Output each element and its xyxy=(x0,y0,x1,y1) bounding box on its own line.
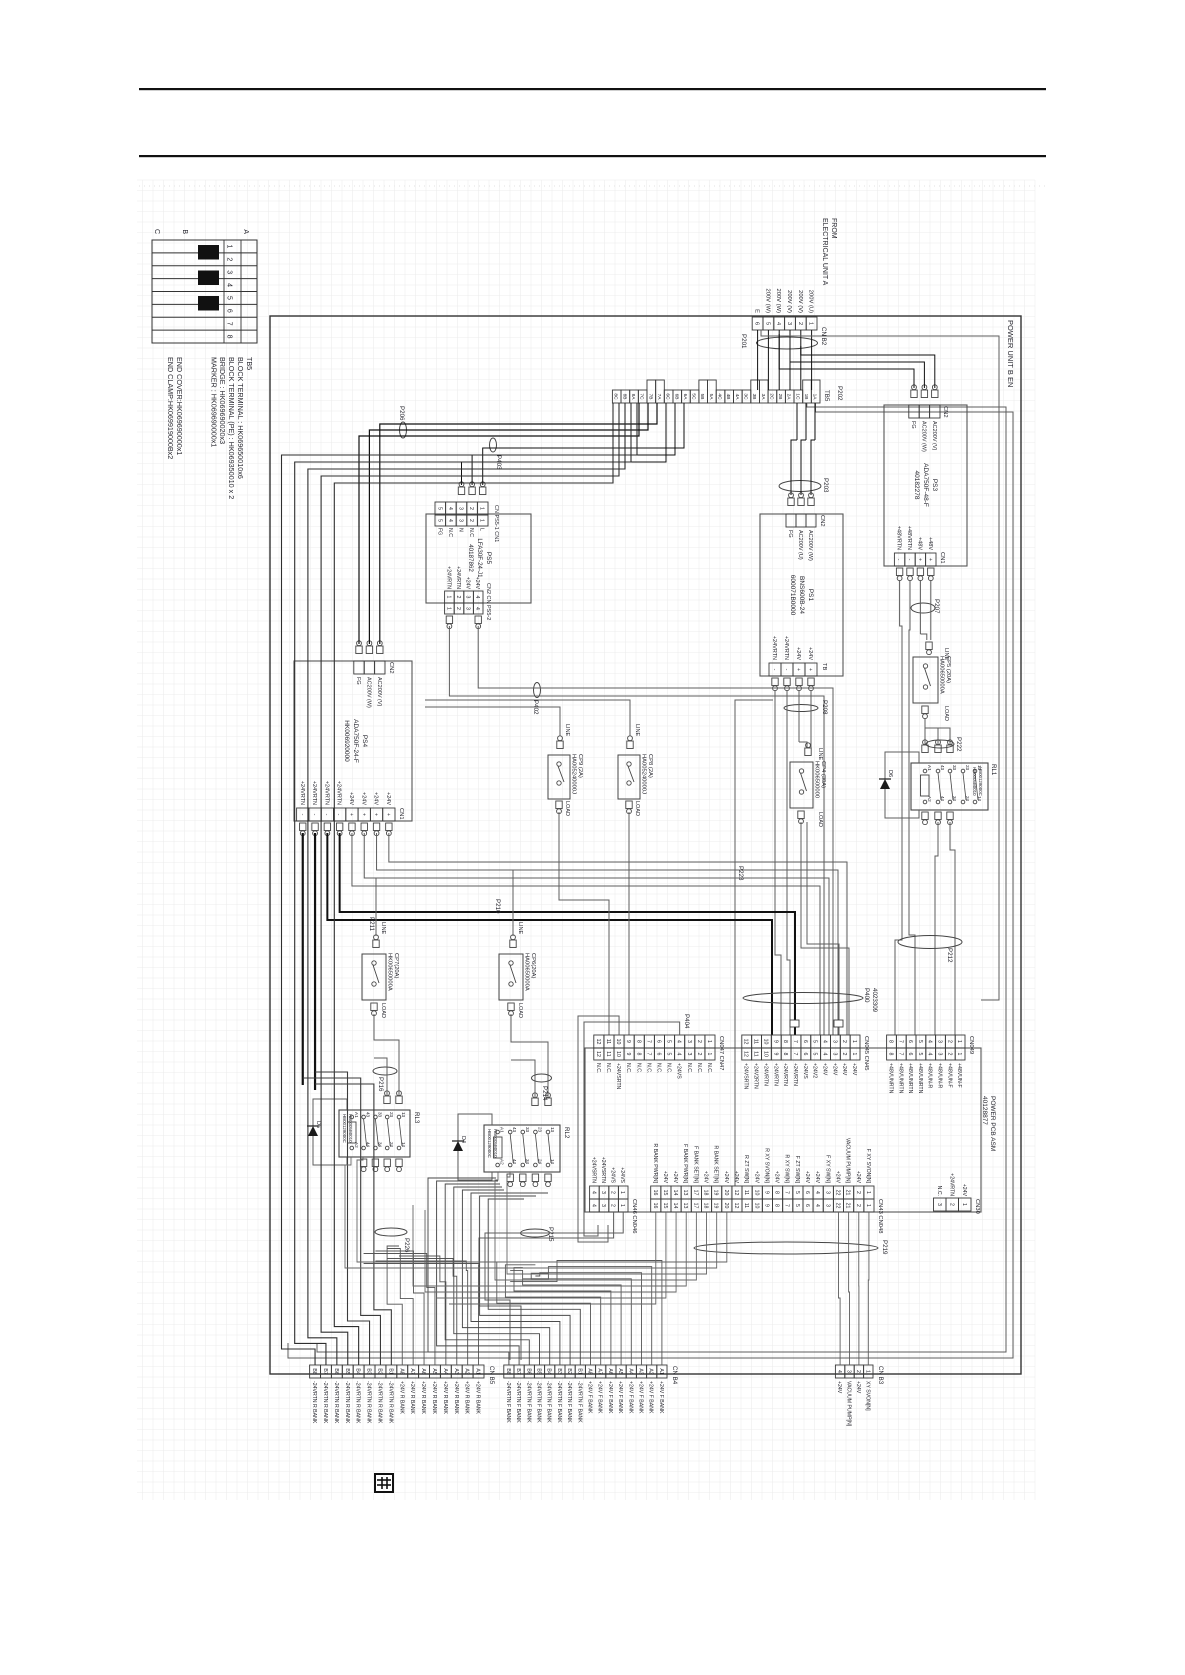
svg-text:16: 16 xyxy=(652,1203,658,1209)
svg-text:3: 3 xyxy=(936,1203,942,1206)
svg-text:FG: FG xyxy=(436,528,442,535)
svg-text:N.C.: N.C. xyxy=(706,1063,712,1073)
svg-text:-24VRTN F BANK: -24VRTN F BANK xyxy=(566,1381,572,1423)
svg-text:3: 3 xyxy=(465,607,471,610)
svg-text:CN46 CN046: CN46 CN046 xyxy=(631,1199,637,1233)
svg-text:10: 10 xyxy=(615,1039,621,1045)
svg-text:B1: B1 xyxy=(387,1368,393,1374)
svg-text:A1: A1 xyxy=(500,1127,505,1133)
svg-text:RL3: RL3 xyxy=(413,1112,420,1124)
svg-text:8: 8 xyxy=(782,1053,788,1056)
svg-text:12: 12 xyxy=(743,1039,749,1045)
svg-text:4C: 4C xyxy=(717,393,723,400)
svg-text:1: 1 xyxy=(865,1191,871,1194)
svg-text:LINE: LINE xyxy=(380,922,386,935)
svg-text:9: 9 xyxy=(625,1053,631,1056)
svg-text:1: 1 xyxy=(445,607,451,610)
svg-text:2: 2 xyxy=(946,1053,952,1056)
svg-text:N.C.: N.C. xyxy=(625,1063,631,1073)
svg-text:LOAD: LOAD xyxy=(517,1003,523,1018)
jumper blocks xyxy=(198,245,219,260)
svg-text:7A: 7A xyxy=(656,394,662,401)
svg-text:6B: 6B xyxy=(673,394,679,400)
svg-text:CN B5: CN B5 xyxy=(488,1366,495,1385)
svg-text:F BANK PWR[N]: F BANK PWR[N] xyxy=(682,1144,688,1183)
svg-text:P206: P206 xyxy=(398,406,405,421)
svg-text:B4: B4 xyxy=(355,1368,361,1374)
svg-text:P201: P201 xyxy=(740,334,747,349)
svg-text:10: 10 xyxy=(753,1190,759,1196)
svg-text:12: 12 xyxy=(733,1190,739,1196)
svg-text:+24VRTN: +24VRTN xyxy=(772,1063,778,1086)
svg-text:+24V: +24V xyxy=(807,647,813,660)
svg-text:+48VRTN: +48VRTN xyxy=(896,526,902,550)
svg-text:A4: A4 xyxy=(627,1368,633,1374)
svg-text:N.C.: N.C. xyxy=(635,1063,641,1073)
svg-text:P212: P212 xyxy=(946,948,953,963)
svg-text:4: 4 xyxy=(775,322,781,325)
svg-text:7: 7 xyxy=(792,1053,798,1056)
svg-text:8: 8 xyxy=(782,1040,788,1043)
svg-text:-24VRTN R BANK: -24VRTN R BANK xyxy=(376,1381,382,1424)
svg-text:9: 9 xyxy=(625,1040,631,1043)
svg-text:ADA750F-48-F: ADA750F-48-F xyxy=(922,463,929,507)
svg-text:1: 1 xyxy=(956,1053,962,1056)
svg-text:CP8 (2A): CP8 (2A) xyxy=(647,754,653,778)
svg-text:2C: 2C xyxy=(768,393,774,400)
svg-text:END COVER:HK069690000x1: END COVER:HK069690000x1 xyxy=(175,357,184,455)
svg-text:A6: A6 xyxy=(607,1368,613,1374)
svg-text:+24VRTN: +24VRTN xyxy=(445,566,451,589)
svg-text:5: 5 xyxy=(917,1040,923,1043)
wire TB5 to PS4 CN2 xyxy=(380,403,657,644)
breaker CP7 xyxy=(373,940,379,948)
svg-text:N.C.: N.C. xyxy=(686,1063,692,1073)
cable marker P208 xyxy=(784,705,818,712)
svg-text:12: 12 xyxy=(743,1051,749,1057)
svg-text:-24VRTN R BANK: -24VRTN R BANK xyxy=(355,1381,361,1424)
svg-text:8: 8 xyxy=(888,1040,894,1043)
svg-text:+24V: +24V xyxy=(465,577,471,590)
svg-text:+24V: +24V xyxy=(662,1171,668,1184)
svg-text:+24V F BANK: +24V F BANK xyxy=(627,1381,633,1414)
wire CP4 LOAD to CN045 xyxy=(801,822,849,1035)
svg-text:A7: A7 xyxy=(409,1368,415,1374)
svg-text:+24V F BANK: +24V F BANK xyxy=(648,1381,654,1414)
svg-text:+: + xyxy=(348,813,354,816)
svg-text:4: 4 xyxy=(676,1053,682,1056)
svg-text:RL2: RL2 xyxy=(563,1127,570,1139)
svg-text:19: 19 xyxy=(713,1203,719,1209)
svg-text:19: 19 xyxy=(713,1190,719,1196)
svg-text:CN2: CN2 xyxy=(819,515,825,527)
svg-text:4: 4 xyxy=(447,519,453,522)
svg-text:+24VRTN: +24VRTN xyxy=(792,1063,798,1086)
svg-text:1: 1 xyxy=(865,1204,871,1207)
svg-text:-24VRTN R BANK: -24VRTN R BANK xyxy=(311,1381,317,1424)
cable marker P219 xyxy=(694,1242,878,1254)
svg-text:CN2 CN PS5-2: CN2 CN PS5-2 xyxy=(485,583,491,620)
svg-text:5: 5 xyxy=(794,1191,800,1194)
svg-text:F XY SVON[N]: F XY SVON[N] xyxy=(865,1149,871,1184)
svg-text:4023309: 4023309 xyxy=(871,988,878,1013)
svg-text:R ZT SW[N]: R ZT SW[N] xyxy=(743,1155,749,1183)
svg-text:10: 10 xyxy=(762,1039,768,1045)
svg-text:40182278: 40182278 xyxy=(913,471,920,500)
svg-text:8: 8 xyxy=(226,335,233,339)
svg-text:HA005240000J: HA005240000J xyxy=(571,754,577,794)
svg-text:+24V F BANK: +24V F BANK xyxy=(617,1381,623,1414)
svg-text:3: 3 xyxy=(600,1204,606,1207)
svg-text:4: 4 xyxy=(814,1191,820,1194)
svg-text:13: 13 xyxy=(977,765,982,771)
svg-text:6: 6 xyxy=(802,1040,808,1043)
svg-text:2B: 2B xyxy=(777,394,783,400)
svg-text:A3: A3 xyxy=(638,1368,644,1374)
svg-text:5B: 5B xyxy=(699,394,705,400)
svg-text:A8: A8 xyxy=(587,1368,593,1374)
cable marker P212 xyxy=(898,936,962,949)
svg-text:+24V: +24V xyxy=(774,1171,780,1184)
svg-text:CN30: CN30 xyxy=(974,1199,980,1214)
svg-text:A7: A7 xyxy=(597,1368,603,1374)
svg-text:4: 4 xyxy=(590,1204,596,1207)
svg-text:4: 4 xyxy=(822,1053,828,1056)
svg-text:3: 3 xyxy=(824,1191,830,1194)
svg-text:9: 9 xyxy=(763,1191,769,1194)
svg-text:20: 20 xyxy=(723,1190,729,1196)
svg-text:2: 2 xyxy=(610,1204,616,1207)
svg-text:200V (V): 200V (V) xyxy=(786,290,792,313)
svg-text:+24V: +24V xyxy=(831,1063,837,1076)
svg-text:200V (U): 200V (U) xyxy=(808,290,814,313)
cable marker P203 xyxy=(779,481,821,492)
svg-text:5A: 5A xyxy=(708,394,714,401)
wire PS3 CN1 to CP5 xyxy=(930,580,932,640)
svg-text:BNS600B-24: BNS600B-24 xyxy=(798,576,805,614)
svg-text:1: 1 xyxy=(619,1191,625,1194)
svg-text:-: - xyxy=(299,814,305,816)
header rule 1 xyxy=(139,88,1046,90)
cable marker P201 xyxy=(757,337,818,349)
svg-text:+48VUN-R: +48VUN-R xyxy=(937,1063,943,1088)
svg-text:2: 2 xyxy=(841,1040,847,1043)
svg-text:3: 3 xyxy=(846,1370,852,1373)
svg-text:18: 18 xyxy=(703,1203,709,1209)
svg-text:FG: FG xyxy=(910,421,916,429)
svg-text:D5: D5 xyxy=(315,1121,321,1128)
svg-text:4A: 4A xyxy=(734,394,740,401)
svg-text:34: 34 xyxy=(525,1159,530,1165)
svg-text:1: 1 xyxy=(956,1040,962,1043)
cable marker P216 xyxy=(373,1067,397,1075)
svg-text:D4: D4 xyxy=(460,1136,466,1143)
svg-text:F BANK SET[N]: F BANK SET[N] xyxy=(692,1146,698,1183)
svg-text:LOAD: LOAD xyxy=(817,812,823,827)
svg-text:+24V F BANK: +24V F BANK xyxy=(597,1381,603,1414)
svg-text:PS1: PS1 xyxy=(807,589,814,602)
svg-text:+24V R BANK: +24V R BANK xyxy=(409,1381,415,1415)
svg-text:7C: 7C xyxy=(639,393,645,400)
svg-text:+48VUN-R: +48VUN-R xyxy=(927,1063,933,1088)
svg-text:P207: P207 xyxy=(933,599,940,614)
wire CP8 CP9 load to CN047 xyxy=(628,812,630,1035)
svg-text:-: - xyxy=(323,814,329,816)
svg-text:+24VRTN: +24VRTN xyxy=(323,781,329,805)
svg-text:2: 2 xyxy=(226,257,233,261)
svg-text:43: 43 xyxy=(512,1127,517,1133)
svg-text:CN2: CN2 xyxy=(942,406,948,418)
svg-text:14: 14 xyxy=(401,1142,406,1148)
svg-text:+: + xyxy=(807,668,813,671)
svg-text:ELECTRICAL UNIT A: ELECTRICAL UNIT A xyxy=(821,218,828,286)
svg-text:12: 12 xyxy=(595,1039,601,1045)
svg-text:MARKER : HK069690000x1: MARKER : HK069690000x1 xyxy=(210,357,219,447)
svg-text:6A: 6A xyxy=(682,394,688,401)
svg-text:8: 8 xyxy=(635,1040,641,1043)
svg-text:4: 4 xyxy=(474,596,480,599)
svg-text:+24V: +24V xyxy=(360,792,366,805)
svg-text:1: 1 xyxy=(851,1053,857,1056)
svg-text:1: 1 xyxy=(619,1204,625,1207)
svg-text:2: 2 xyxy=(455,596,461,599)
svg-text:6: 6 xyxy=(226,309,233,313)
svg-text:B5: B5 xyxy=(536,1368,542,1374)
svg-text:A5: A5 xyxy=(617,1368,623,1374)
svg-text:A6: A6 xyxy=(420,1368,426,1374)
svg-text:23: 23 xyxy=(389,1112,394,1118)
svg-text:END CLAMP:HK069919000Bx2: END CLAMP:HK069919000Bx2 xyxy=(166,357,175,459)
svg-text:2: 2 xyxy=(610,1191,616,1194)
svg-text:3: 3 xyxy=(786,322,792,325)
svg-text:+48VUN-F: +48VUN-F xyxy=(956,1063,962,1088)
svg-text:4: 4 xyxy=(836,1370,842,1373)
svg-text:6: 6 xyxy=(804,1191,810,1194)
svg-text:14: 14 xyxy=(550,1159,555,1165)
svg-text:5: 5 xyxy=(764,322,770,325)
svg-text:2: 2 xyxy=(696,1053,702,1056)
svg-text:1: 1 xyxy=(479,507,485,510)
svg-text:11: 11 xyxy=(743,1203,749,1208)
svg-text:33: 33 xyxy=(952,765,957,771)
svg-text:HB00128000C: HB00128000C xyxy=(342,1114,347,1143)
svg-text:44: 44 xyxy=(512,1159,517,1165)
svg-text:2: 2 xyxy=(455,607,461,610)
svg-text:A1: A1 xyxy=(927,765,932,771)
svg-text:FROM: FROM xyxy=(830,218,837,239)
svg-text:3C: 3C xyxy=(742,393,748,400)
svg-text:1: 1 xyxy=(226,244,233,248)
svg-text:POWER UNIT B EN: POWER UNIT B EN xyxy=(1006,320,1015,387)
svg-text:6: 6 xyxy=(802,1053,808,1056)
wire PS1 RTN to CN045 xyxy=(787,690,790,1035)
svg-text:B3: B3 xyxy=(556,1368,562,1374)
svg-text:HK006500000: HK006500000 xyxy=(814,761,820,798)
svg-text:P219: P219 xyxy=(881,1240,888,1255)
breaker CP6 xyxy=(510,940,516,948)
svg-text:-24VRTN F BANK: -24VRTN F BANK xyxy=(525,1381,531,1423)
svg-text:AC200V (V): AC200V (V) xyxy=(376,677,382,707)
svg-text:+24V: +24V xyxy=(834,1171,840,1184)
svg-text:7: 7 xyxy=(645,1053,651,1056)
svg-text:B1: B1 xyxy=(576,1368,582,1374)
svg-text:R XY SVON[N]: R XY SVON[N] xyxy=(763,1148,769,1183)
svg-text:+24V R BANK: +24V R BANK xyxy=(453,1381,459,1415)
svg-text:-: - xyxy=(896,559,902,561)
svg-text:+24V: +24V xyxy=(672,1171,678,1184)
svg-text:LINE: LINE xyxy=(517,922,523,935)
svg-text:+24V: +24V xyxy=(373,792,379,805)
svg-text:A3: A3 xyxy=(453,1368,459,1374)
svg-text:BLOCK TERMINAL (PE) : HK069350: BLOCK TERMINAL (PE) : HK069350010 x 2 xyxy=(227,357,236,499)
svg-text:+: + xyxy=(373,813,379,816)
svg-text:+24V: +24V xyxy=(822,1063,828,1076)
svg-text:A: A xyxy=(242,229,249,234)
wire TB5 to PS3 CN2 xyxy=(801,346,935,388)
svg-text:40128877: 40128877 xyxy=(981,1096,988,1125)
wire PS4 +24V risers xyxy=(389,833,847,1035)
svg-text:AC200V (W): AC200V (W) xyxy=(807,530,813,561)
power supply PS3 xyxy=(884,405,967,566)
svg-text:1C: 1C xyxy=(794,393,800,400)
svg-text:5: 5 xyxy=(436,519,442,522)
svg-text:CN43 CN048: CN43 CN048 xyxy=(877,1199,883,1233)
svg-text:3: 3 xyxy=(686,1053,692,1056)
svg-text:9: 9 xyxy=(772,1053,778,1056)
svg-text:+24V F BANK: +24V F BANK xyxy=(587,1381,593,1414)
svg-text:AC200V (V): AC200V (V) xyxy=(931,421,937,451)
cable marker P400 xyxy=(743,993,863,1004)
cable marker P402 xyxy=(534,683,541,698)
svg-text:P210: P210 xyxy=(494,899,501,914)
svg-text:A2: A2 xyxy=(648,1368,654,1374)
svg-text:12: 12 xyxy=(733,1203,739,1209)
svg-text:+24V F BANK: +24V F BANK xyxy=(658,1381,664,1414)
svg-text:17: 17 xyxy=(692,1203,698,1209)
svg-text:B5: B5 xyxy=(344,1368,350,1374)
wire CN43 signals down through P219 xyxy=(357,1157,727,1262)
svg-text:21: 21 xyxy=(845,1190,851,1196)
svg-text:-24VRTN F BANK: -24VRTN F BANK xyxy=(576,1381,582,1423)
svg-text:+24VSRTN: +24VSRTN xyxy=(743,1063,749,1090)
svg-text:40187862: 40187862 xyxy=(467,544,474,572)
svg-text:+48V: +48V xyxy=(927,537,933,550)
svg-text:N.C.: N.C. xyxy=(666,1063,672,1073)
svg-text:2: 2 xyxy=(948,1203,954,1206)
svg-text:-24VRTN R BANK: -24VRTN R BANK xyxy=(322,1381,328,1424)
svg-text:10: 10 xyxy=(753,1203,759,1209)
svg-text:11: 11 xyxy=(605,1039,611,1044)
svg-text:3: 3 xyxy=(831,1053,837,1056)
svg-text:CN049: CN049 xyxy=(968,1036,974,1054)
svg-text:24: 24 xyxy=(537,1159,542,1165)
wire CP7 feed xyxy=(375,878,377,936)
svg-text:5C: 5C xyxy=(691,393,697,400)
svg-text:3: 3 xyxy=(458,507,464,510)
wire CN46 outputs xyxy=(485,1212,623,1360)
svg-text:B2: B2 xyxy=(566,1368,572,1374)
svg-text:N.C.: N.C. xyxy=(696,1063,702,1073)
svg-text:24: 24 xyxy=(965,796,970,802)
svg-text:+: + xyxy=(927,558,933,561)
svg-text:HA005240000J: HA005240000J xyxy=(641,754,647,794)
svg-text:7: 7 xyxy=(784,1191,790,1194)
svg-text:4: 4 xyxy=(474,607,480,610)
svg-text:HK00650000A: HK00650000A xyxy=(387,953,393,991)
svg-text:20: 20 xyxy=(723,1203,729,1209)
wire CP5 to RL1 xyxy=(925,718,950,745)
svg-text:24: 24 xyxy=(389,1142,394,1148)
jog connector on CN045 feed xyxy=(790,1020,799,1027)
svg-text:1: 1 xyxy=(479,519,485,522)
svg-text:9: 9 xyxy=(763,1204,769,1207)
svg-text:P223: P223 xyxy=(737,866,744,881)
svg-text:D6: D6 xyxy=(887,770,893,777)
svg-text:200V (V): 200V (V) xyxy=(797,290,803,313)
svg-text:HB00128000C: HB00128000C xyxy=(978,767,983,796)
svg-text:2: 2 xyxy=(468,519,474,522)
svg-text:+24VRTN: +24VRTN xyxy=(783,636,789,660)
svg-text:+24VS: +24VS xyxy=(619,1167,625,1183)
svg-text:+: + xyxy=(360,813,366,816)
svg-text:7: 7 xyxy=(897,1053,903,1056)
svg-text:HA00650000A: HA00650000A xyxy=(524,953,530,991)
svg-text:F XY SW[N]: F XY SW[N] xyxy=(824,1155,830,1183)
svg-text:5: 5 xyxy=(666,1053,672,1056)
svg-text:CN1: CN1 xyxy=(939,552,945,564)
svg-text:TB5: TB5 xyxy=(823,390,830,402)
svg-text:3: 3 xyxy=(465,596,471,599)
svg-text:+24VS: +24VS xyxy=(610,1167,616,1183)
svg-text:-24VRTN R BANK: -24VRTN R BANK xyxy=(366,1381,372,1424)
breaker CP8 xyxy=(627,741,633,749)
svg-text:N.C: N.C xyxy=(468,528,474,537)
svg-text:4: 4 xyxy=(927,1053,933,1056)
svg-text:B: B xyxy=(181,229,188,234)
svg-text:11: 11 xyxy=(605,1051,611,1056)
svg-text:CP6(20A): CP6(20A) xyxy=(530,953,536,979)
svg-text:+48VUNRTN: +48VUNRTN xyxy=(907,1063,913,1094)
svg-text:LOAD: LOAD xyxy=(943,706,949,721)
svg-text:21: 21 xyxy=(845,1203,851,1209)
svg-text:-24VRTN R BANK: -24VRTN R BANK xyxy=(387,1381,393,1424)
svg-text:N.C.: N.C. xyxy=(936,1186,942,1196)
svg-text:33: 33 xyxy=(377,1112,382,1118)
svg-text:A2: A2 xyxy=(927,796,932,802)
svg-text:-24VRTN F BANK: -24VRTN F BANK xyxy=(505,1381,511,1423)
svg-text:43: 43 xyxy=(940,765,945,771)
svg-text:11: 11 xyxy=(753,1039,759,1044)
svg-text:AC200V (W): AC200V (W) xyxy=(920,421,926,452)
svg-text:8B: 8B xyxy=(621,394,627,400)
svg-text:17: 17 xyxy=(692,1190,698,1196)
svg-text:+24V: +24V xyxy=(841,1063,847,1076)
svg-text:+24V: +24V xyxy=(855,1381,861,1394)
svg-text:-24VRTN F BANK: -24VRTN F BANK xyxy=(556,1381,562,1423)
svg-text:+24V: +24V xyxy=(961,1184,967,1197)
svg-text:14: 14 xyxy=(977,796,982,802)
svg-text:P402: P402 xyxy=(532,700,539,715)
svg-text:+24V: +24V xyxy=(855,1171,861,1184)
svg-text:7: 7 xyxy=(792,1040,798,1043)
svg-text:A2: A2 xyxy=(500,1159,505,1165)
breaker CP9 xyxy=(557,741,563,749)
svg-text:13: 13 xyxy=(682,1203,688,1209)
svg-text:CN047 CN47: CN047 CN47 xyxy=(718,1036,724,1070)
svg-text:A1: A1 xyxy=(475,1368,481,1374)
svg-text:43: 43 xyxy=(366,1112,371,1118)
svg-text:+24VRTN: +24VRTN xyxy=(311,781,317,805)
